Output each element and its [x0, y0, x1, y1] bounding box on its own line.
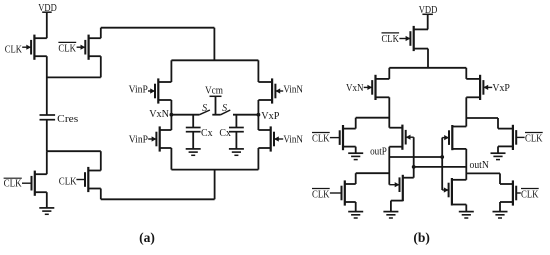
wire left column lower [170, 148, 172, 170]
ground below M15 [383, 201, 398, 218]
wire left column mid [170, 100, 172, 130]
net Vcm label [205, 86, 223, 97]
transistor M18 reset NMOS lower-right [500, 180, 516, 205]
label CLKbar of M9 [382, 33, 411, 45]
transistor M16 latch lower-right [444, 178, 452, 206]
node VxP [257, 111, 280, 122]
wire reset left down [355, 118, 357, 129]
label VinN of M8 [275, 134, 303, 145]
wire outN line [414, 166, 467, 168]
wire top feed (a) [101, 27, 215, 29]
label CLKbar of M17 [312, 189, 342, 201]
transistor M19 reset NMOS upper-right [498, 125, 516, 150]
wire left column upper [170, 60, 172, 82]
transistor M6 input VinP bottom [152, 126, 172, 151]
wire M13/M15 shared vertical (outP) [388, 147, 390, 185]
transistor M2 clocked PMOS [81, 35, 101, 60]
ground below M12 [348, 147, 363, 160]
wire node T horizontal [47, 150, 101, 152]
wire M9 source down [427, 49, 429, 68]
svg-text:VinN: VinN [283, 134, 303, 145]
transistor M8 input VinN bottom [258, 126, 278, 151]
svg-text:CLK: CLK [525, 133, 543, 145]
svg-text:outN: outN [470, 160, 490, 171]
transistor M17 reset NMOS lower-left [342, 180, 356, 205]
wire outP reset down [355, 173, 357, 184]
svg-text:S: S [222, 103, 227, 114]
svg-text:CLK: CLK [312, 189, 330, 201]
label CLKbar of M3 [4, 177, 32, 189]
label VinP of M5 [129, 85, 154, 96]
net VDD label (b) [419, 5, 438, 16]
label CLKbar of M18 [516, 189, 539, 201]
wire M14/M16 shared vertical (outN) [465, 149, 467, 180]
svg-text:VinN: VinN [283, 85, 303, 96]
svg-text:Cres: Cres [57, 114, 78, 125]
svg-text:Vcm: Vcm [205, 86, 223, 97]
wire outN reset down [499, 173, 501, 184]
svg-text:VxP: VxP [261, 111, 279, 122]
svg-text:outP: outP [370, 146, 387, 157]
wire Cres to node T [46, 120, 48, 152]
wire VDD stem (b) [427, 14, 429, 29]
wire M15 gate lead [389, 184, 399, 186]
svg-text:VxN: VxN [149, 109, 169, 120]
node VxN [149, 109, 173, 120]
transistor M12 reset NMOS upper-left [340, 125, 356, 150]
svg-text:VinP: VinP [129, 134, 149, 145]
wire reset right down [497, 118, 499, 129]
wire right column lower [257, 148, 259, 170]
wire M2 source join left [47, 76, 101, 78]
wire M4 source down [100, 189, 102, 200]
wire M13 gate to column L [406, 136, 414, 138]
svg-text:CLK: CLK [4, 177, 22, 189]
svg-text:S: S [202, 103, 207, 114]
svg-text:VxN: VxN [346, 83, 364, 94]
capacitor Cx right [229, 115, 244, 132]
svg-text:CLK: CLK [312, 133, 330, 145]
transistor M9 tail PMOS [406, 26, 428, 51]
label Cres [57, 114, 78, 125]
label Cx right [219, 128, 231, 139]
wire source rail (b) [389, 67, 466, 69]
transistor M1 clocked PMOS [26, 35, 47, 60]
ground below Cx right [229, 131, 244, 155]
svg-text:VinP: VinP [129, 85, 149, 96]
wire reset right horizontal [466, 117, 498, 119]
label VxP of M11 [483, 83, 510, 94]
wire rail to M10 [388, 68, 390, 79]
label VinN of M7 [276, 85, 303, 96]
wire VDD terminal bar (b) [422, 13, 433, 15]
ground below M16 [459, 205, 474, 219]
wire M16 drain stub [452, 179, 466, 181]
capacitor Cres [40, 115, 56, 120]
node dot outP-columnR [440, 155, 444, 159]
wire M16 gate lead [442, 189, 448, 191]
ground below M19 [491, 146, 506, 159]
caption (a) [139, 230, 155, 245]
wire right column mid [257, 100, 259, 130]
svg-text:CLK: CLK [5, 43, 22, 55]
wire M2 source down [100, 56, 102, 77]
label CLK of M4 [59, 176, 85, 188]
wire VDD stem (a) [46, 12, 48, 38]
wire Vcm terminal bar [210, 95, 222, 97]
wire switch S2 to VxP [233, 114, 258, 116]
wire block top rail [171, 59, 258, 61]
svg-text:(a): (a) [139, 230, 155, 245]
label CLKbar of M12 [312, 133, 340, 145]
wire bottom feed (a) [101, 198, 215, 200]
wire block bottom rail [171, 169, 258, 171]
ground below Cx left [186, 131, 201, 155]
label VxN of M10 [346, 83, 372, 94]
svg-text:CLK: CLK [59, 176, 77, 188]
wire outP line [389, 156, 442, 158]
wire M2 drain up [100, 28, 102, 39]
wire M15 drain stub [403, 177, 414, 179]
svg-text:CLK: CLK [521, 189, 539, 201]
wire rail to M11 [465, 68, 467, 79]
wire Vcm stem [215, 96, 217, 114]
transistor M5 input VinP top [150, 78, 171, 103]
transistor M13 latch upper-left [389, 125, 410, 150]
label Cx left [201, 128, 213, 139]
net VDD label (a) [38, 3, 57, 14]
wire top feed down to block [213, 28, 215, 61]
label CLK of M1 [5, 43, 31, 55]
wire outP reset horizontal [356, 172, 390, 174]
svg-text:Cx: Cx [219, 128, 231, 139]
switch S1 [199, 103, 210, 115]
transistor M10 input VxN [367, 75, 389, 100]
label outN [470, 160, 490, 171]
wire node T to M3 drain [46, 151, 48, 174]
switch S2 [221, 103, 231, 115]
wire reset left horizontal [356, 117, 390, 119]
label CLKbar of M2 [58, 42, 85, 54]
transistor M11 input VxP [466, 75, 488, 100]
label outP [370, 146, 387, 157]
wire VDD terminal bar (a) [42, 11, 52, 13]
wire outN reset horizontal [466, 172, 500, 174]
transistor M15 latch lower-left [395, 175, 403, 201]
caption (b) [413, 230, 430, 245]
label CLKbar of M19 [516, 133, 543, 145]
transistor M7 input VinN top [258, 78, 280, 103]
wire M11 drain column [465, 97, 467, 126]
label VinP of M6 [129, 134, 156, 145]
wire M15 source stub [391, 200, 403, 202]
svg-text:CLK: CLK [382, 33, 400, 45]
wire right column upper [257, 60, 259, 82]
svg-text:VxP: VxP [492, 83, 510, 94]
wire M10 drain column [388, 97, 390, 127]
ground below M17 [348, 202, 363, 218]
wire node T to M4 drain [100, 151, 102, 170]
wire M14 gate to column R [442, 137, 449, 139]
ground below M3 [39, 192, 54, 214]
ground below M18 [493, 202, 508, 218]
wire M1 source to Cres [46, 56, 48, 115]
svg-text:(b): (b) [413, 230, 430, 245]
wire VxN to switch S1 [171, 114, 199, 116]
wire between switches [212, 114, 220, 116]
svg-text:Cx: Cx [201, 128, 213, 139]
wire M16 source stub [452, 204, 466, 206]
wire column R (outP cross) [441, 138, 443, 190]
transistor M4 clocked NMOS [85, 167, 101, 192]
wire bottom feed up to block [214, 170, 216, 200]
transistor M3 clocked NMOS [32, 171, 47, 196]
capacitor Cx left [186, 115, 201, 132]
wire column L (outN cross) [413, 137, 415, 178]
transistor M14 latch upper-right [444, 125, 466, 150]
svg-text:CLK: CLK [58, 43, 76, 55]
node dot outN-columnL [412, 165, 416, 169]
